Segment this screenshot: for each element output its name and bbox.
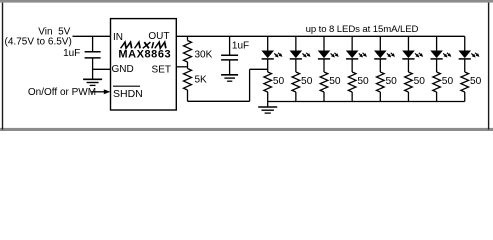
- svg-text:up to 8 LEDs at 15mA/LED: up to 8 LEDs at 15mA/LED: [306, 24, 419, 35]
- svg-text:50: 50: [357, 76, 369, 87]
- svg-text:IN: IN: [113, 32, 123, 43]
- svg-text:5K: 5K: [195, 74, 208, 85]
- svg-text:50: 50: [470, 76, 482, 87]
- svg-text:50: 50: [301, 76, 313, 87]
- svg-text:1uF: 1uF: [63, 48, 80, 59]
- svg-text:OUT: OUT: [148, 31, 169, 42]
- svg-text:30K: 30K: [195, 49, 213, 60]
- svg-text:MAX8863: MAX8863: [118, 48, 171, 60]
- svg-text:On/Off or PWM: On/Off or PWM: [28, 87, 96, 98]
- svg-text:50: 50: [414, 76, 426, 87]
- svg-text:GND: GND: [112, 64, 134, 75]
- svg-text:SHDN: SHDN: [113, 88, 143, 100]
- svg-text:1uF: 1uF: [232, 41, 249, 52]
- svg-text:50: 50: [442, 76, 454, 87]
- svg-text:50: 50: [386, 76, 398, 87]
- svg-text:SET: SET: [152, 64, 171, 75]
- svg-text:50: 50: [273, 76, 285, 87]
- svg-text:50: 50: [329, 76, 341, 87]
- svg-text:(4.75V to 6.5V): (4.75V to 6.5V): [5, 37, 72, 48]
